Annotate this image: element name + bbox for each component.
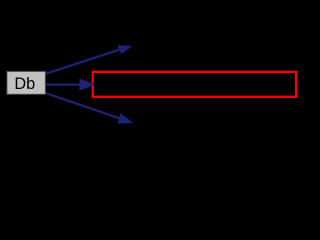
rectangle node (red outline) (93, 72, 296, 97)
arrowhead upper (117, 45, 132, 54)
svg-text:Db: Db (14, 75, 35, 93)
wire: Db to red rectangle (45, 83, 82, 85)
node Db box (7, 71, 46, 94)
wire: Db to upper node (45, 49, 121, 74)
arrowhead lower (117, 113, 133, 124)
arrowhead middle (79, 79, 95, 91)
wire: Db to lower node (45, 93, 122, 119)
